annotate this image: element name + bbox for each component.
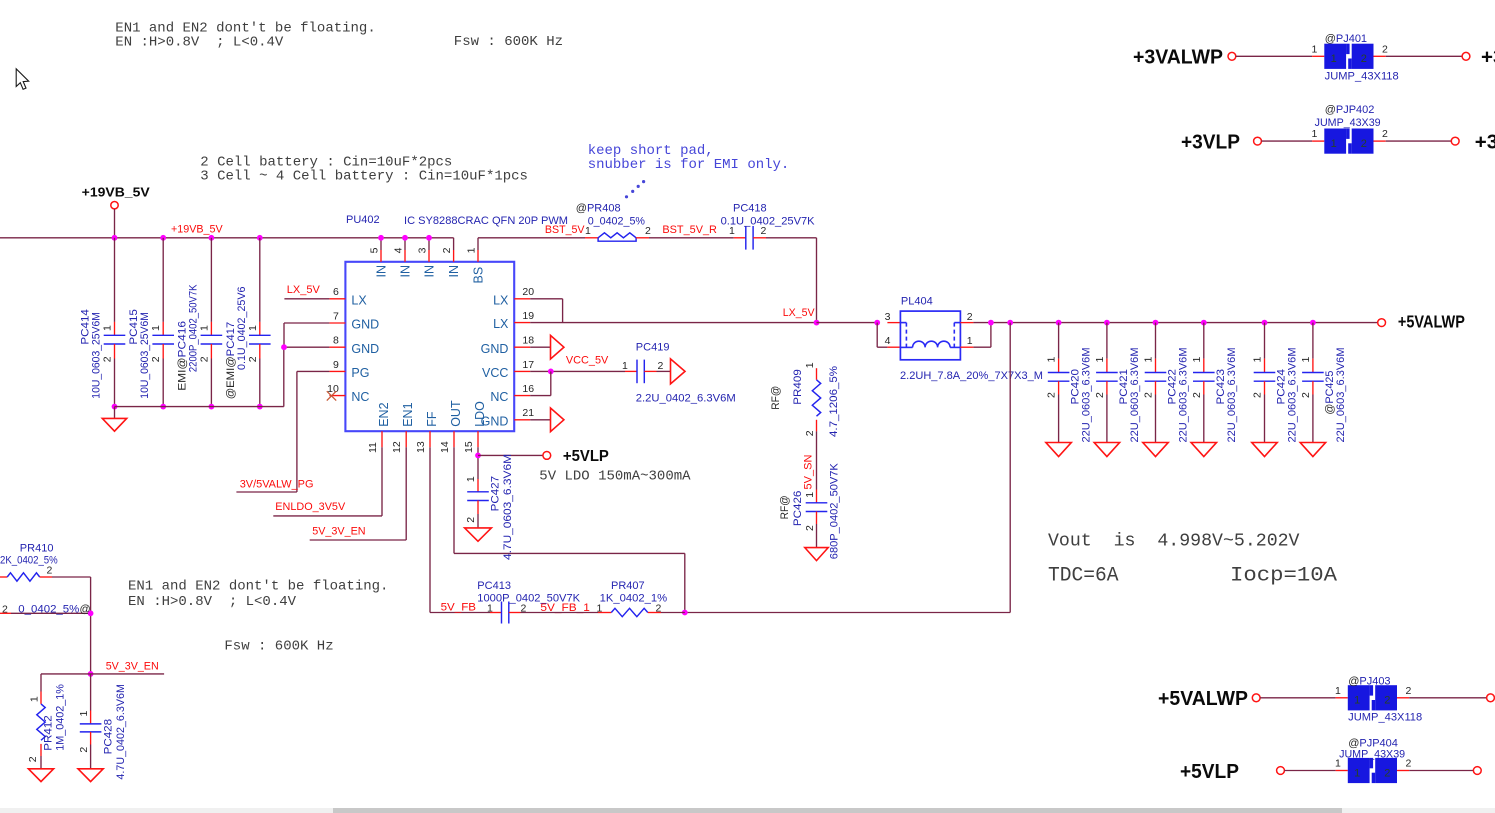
svg-text:JUMP_43X39: JUMP_43X39 — [1339, 749, 1405, 761]
svg-text:1: 1 — [804, 362, 816, 368]
svg-text:IN: IN — [447, 265, 461, 278]
svg-text:1: 1 — [102, 325, 114, 331]
svg-text:1: 1 — [1300, 357, 1312, 363]
svg-text:Vout is 4.998V~5.202V: Vout is 4.998V~5.202V — [1048, 531, 1300, 551]
svg-text:1: 1 — [466, 247, 478, 253]
svg-text:1: 1 — [1335, 685, 1341, 697]
svg-text:6: 6 — [333, 286, 339, 298]
svg-text:2.2UH_7.8A_20%_7X7X3_M: 2.2UH_7.8A_20%_7X7X3_M — [900, 370, 1043, 382]
svg-text:1M_0402_1%: 1M_0402_1% — [55, 684, 67, 751]
svg-text:Iocp=10A: Iocp=10A — [1230, 565, 1338, 588]
svg-text:22U_0603_6.3V6M: 22U_0603_6.3V6M — [1287, 348, 1299, 443]
svg-text:1: 1 — [247, 325, 259, 331]
svg-text:1: 1 — [1311, 128, 1317, 140]
svg-text:PR412: PR412 — [43, 715, 55, 751]
svg-text:EN1: EN1 — [401, 402, 415, 426]
svg-text:PC419: PC419 — [636, 342, 670, 354]
svg-text:20: 20 — [522, 286, 534, 298]
svg-text:2: 2 — [1143, 392, 1155, 398]
svg-text:1: 1 — [1191, 357, 1203, 363]
svg-text:1: 1 — [1331, 138, 1337, 150]
svg-text:+3VALWP: +3VALWP — [1133, 46, 1223, 69]
svg-text:1: 1 — [622, 360, 628, 372]
svg-text:10U_0603_25V6M: 10U_0603_25V6M — [139, 312, 151, 399]
svg-text:2: 2 — [78, 747, 90, 753]
svg-text:GND: GND — [351, 318, 379, 332]
svg-text:4: 4 — [885, 335, 891, 347]
svg-text:0_0402_5%: 0_0402_5% — [588, 215, 646, 227]
svg-text:2: 2 — [150, 356, 162, 362]
svg-text:2: 2 — [1300, 392, 1312, 398]
svg-text:2: 2 — [1384, 767, 1390, 779]
svg-text:0_0402_5%: 0_0402_5% — [18, 604, 79, 616]
svg-text:1: 1 — [198, 325, 210, 331]
svg-text:3: 3 — [885, 311, 891, 323]
svg-text:Fsw : 600K Hz: Fsw : 600K Hz — [224, 638, 333, 654]
svg-text:7: 7 — [333, 310, 339, 322]
svg-text:11: 11 — [367, 442, 379, 453]
svg-text:TDC=6A: TDC=6A — [1048, 565, 1119, 588]
svg-text:LX: LX — [493, 293, 509, 307]
svg-text:IC SY8288CRAC QFN 20P PWM: IC SY8288CRAC QFN 20P PWM — [404, 215, 568, 227]
svg-text:2: 2 — [1406, 758, 1412, 770]
svg-text:PC428: PC428 — [103, 719, 115, 755]
svg-text:1: 1 — [78, 711, 90, 717]
svg-text:2: 2 — [1046, 392, 1058, 398]
svg-text:17: 17 — [522, 359, 534, 371]
svg-text:RF@: RF@ — [770, 386, 782, 410]
svg-text:+3: +3 — [1475, 130, 1495, 153]
svg-text:LX_5V: LX_5V — [287, 284, 321, 296]
svg-text:2.2U_0402_6.3V6M: 2.2U_0402_6.3V6M — [636, 393, 736, 405]
svg-text:Fsw : 600K Hz: Fsw : 600K Hz — [454, 34, 563, 50]
svg-text:1: 1 — [1252, 357, 1264, 363]
svg-text:PC413: PC413 — [477, 580, 511, 592]
svg-text:2: 2 — [102, 356, 114, 362]
svg-text:1: 1 — [1046, 357, 1058, 363]
svg-text:1: 1 — [29, 696, 41, 702]
svg-text:2: 2 — [1191, 392, 1203, 398]
svg-text:PC418: PC418 — [733, 203, 767, 215]
svg-text:JUMP_43X118: JUMP_43X118 — [1348, 711, 1422, 723]
svg-text:1: 1 — [967, 335, 973, 347]
svg-text:PC427: PC427 — [490, 476, 502, 512]
svg-text:2: 2 — [247, 356, 259, 362]
svg-text:2: 2 — [1361, 138, 1367, 150]
svg-text:BST_5V_R: BST_5V_R — [662, 224, 717, 236]
svg-text:1: 1 — [1354, 767, 1360, 779]
svg-text:PR407: PR407 — [611, 580, 645, 592]
svg-text:VCC: VCC — [482, 366, 508, 380]
svg-text:PC426: PC426 — [792, 491, 804, 527]
svg-text:4.7U_0603_6.3V6M: 4.7U_0603_6.3V6M — [502, 454, 514, 560]
svg-text:GND: GND — [481, 342, 509, 356]
svg-text:PG: PG — [351, 366, 369, 380]
svg-text:9: 9 — [333, 359, 339, 371]
svg-text:+3VLP: +3VLP — [1181, 130, 1240, 153]
svg-text:680P_0402_50V7K: 680P_0402_50V7K — [829, 463, 841, 560]
svg-text:3V/5VALW_PG: 3V/5VALW_PG — [240, 479, 314, 491]
svg-text:2: 2 — [804, 430, 816, 436]
svg-text:RF@: RF@ — [779, 495, 791, 519]
svg-text:2: 2 — [804, 525, 816, 531]
svg-text:1: 1 — [1143, 357, 1155, 363]
svg-text:+5VALWP: +5VALWP — [1398, 311, 1465, 331]
svg-text:2: 2 — [1252, 392, 1264, 398]
svg-text:22U_0603_6.3V6M: 22U_0603_6.3V6M — [1226, 348, 1238, 443]
svg-text:5V_3V_EN: 5V_3V_EN — [106, 660, 159, 672]
svg-text:LDO: LDO — [473, 401, 487, 427]
svg-text:5V_3V_EN: 5V_3V_EN — [312, 525, 365, 537]
svg-text:BST_5V: BST_5V — [545, 224, 585, 236]
svg-text:ENLDO_3V5V: ENLDO_3V5V — [275, 501, 346, 513]
svg-text:3 Cell ~ 4 Cell battery : Cin=: 3 Cell ~ 4 Cell battery : Cin=10uF*1pcs — [200, 169, 528, 185]
svg-text:OUT: OUT — [449, 400, 463, 427]
svg-text:2: 2 — [465, 517, 477, 523]
svg-text:LX_5V: LX_5V — [783, 307, 815, 319]
svg-text:PR410: PR410 — [20, 543, 54, 555]
svg-text:2: 2 — [2, 604, 8, 616]
svg-text:PL404: PL404 — [901, 296, 933, 308]
svg-text:1: 1 — [1331, 53, 1337, 65]
svg-text:1: 1 — [804, 492, 816, 498]
svg-text:12: 12 — [391, 441, 403, 453]
svg-text:+3: +3 — [1481, 46, 1495, 69]
svg-text:15: 15 — [463, 441, 475, 453]
svg-text:1K_0402_1%: 1K_0402_1% — [600, 593, 668, 605]
svg-text:18: 18 — [522, 335, 534, 347]
svg-text:GND: GND — [351, 342, 379, 356]
svg-text:1: 1 — [150, 325, 162, 331]
svg-text:4: 4 — [393, 247, 405, 253]
svg-text:5: 5 — [369, 247, 381, 253]
svg-text:5V_FB: 5V_FB — [441, 602, 476, 614]
svg-text:+19VB_5V: +19VB_5V — [171, 224, 223, 236]
svg-text:FF: FF — [425, 411, 439, 427]
svg-text:19: 19 — [522, 310, 534, 322]
svg-text:2: 2 — [1382, 43, 1388, 55]
svg-text:@: @ — [80, 604, 91, 616]
svg-text:2: 2 — [1382, 128, 1388, 140]
svg-text:@PR408: @PR408 — [576, 203, 621, 215]
svg-text:IN: IN — [399, 265, 413, 278]
svg-text:LX: LX — [351, 293, 367, 307]
svg-text:5V LDO 150mA~300mA: 5V LDO 150mA~300mA — [539, 469, 691, 485]
svg-text:+5VLP: +5VLP — [1180, 760, 1239, 783]
svg-text:IN: IN — [423, 265, 437, 278]
svg-text:5V_SN: 5V_SN — [803, 455, 815, 490]
svg-text:@PJ401: @PJ401 — [1325, 33, 1367, 45]
svg-text:BS: BS — [472, 267, 486, 284]
svg-text:JUMP_43X118: JUMP_43X118 — [1325, 71, 1399, 83]
svg-text:PU402: PU402 — [346, 214, 380, 226]
svg-text:1: 1 — [1354, 695, 1360, 707]
svg-text:VCC_5V: VCC_5V — [566, 355, 609, 367]
svg-text:14: 14 — [439, 441, 451, 453]
svg-text:2: 2 — [27, 756, 39, 762]
svg-text:0.1U_0402_25V7K: 0.1U_0402_25V7K — [721, 215, 816, 227]
svg-text:NC: NC — [351, 390, 369, 404]
svg-text:1: 1 — [1094, 357, 1106, 363]
svg-text:2: 2 — [1384, 695, 1390, 707]
svg-text:13: 13 — [415, 441, 427, 453]
svg-text:10U_0603_25V6M: 10U_0603_25V6M — [91, 312, 103, 399]
svg-text:2: 2 — [47, 565, 53, 577]
svg-text:2200P_0402_50V7K: 2200P_0402_50V7K — [187, 284, 199, 372]
svg-text:+19VB_5V: +19VB_5V — [82, 184, 150, 199]
svg-text:NC: NC — [490, 390, 508, 404]
svg-text:JUMP_43X39: JUMP_43X39 — [1315, 117, 1381, 129]
svg-text:PR409: PR409 — [792, 369, 804, 405]
svg-text:22U_0603_6.3V6M: 22U_0603_6.3V6M — [1081, 348, 1093, 443]
svg-text:4.7U_0402_6.3V6M: 4.7U_0402_6.3V6M — [115, 684, 127, 780]
svg-text:EN :H>0.8V ; L<0.4V: EN :H>0.8V ; L<0.4V — [128, 594, 297, 610]
svg-text:3: 3 — [417, 247, 429, 253]
svg-text:EN :H>0.8V ; L<0.4V: EN :H>0.8V ; L<0.4V — [115, 35, 284, 51]
svg-text:2: 2 — [1406, 685, 1412, 697]
svg-text:1: 1 — [1311, 43, 1317, 55]
svg-text:2: 2 — [1094, 392, 1106, 398]
svg-text:22U_0603_6.3V6M: 22U_0603_6.3V6M — [1129, 348, 1141, 443]
svg-text:16: 16 — [522, 383, 534, 395]
svg-text:21: 21 — [522, 407, 534, 419]
svg-text:IN: IN — [375, 265, 389, 278]
svg-text:2: 2 — [1361, 53, 1367, 65]
svg-text:EN2: EN2 — [377, 402, 391, 426]
svg-text:4.7_1206_5%: 4.7_1206_5% — [828, 366, 840, 437]
svg-text:0.1U_0402_25V6: 0.1U_0402_25V6 — [236, 287, 248, 371]
svg-text:@PJ403: @PJ403 — [1348, 675, 1390, 687]
svg-text:+5VALWP: +5VALWP — [1158, 687, 1248, 710]
svg-text:@PJP402: @PJP402 — [1325, 104, 1375, 116]
svg-text:2: 2 — [967, 311, 973, 323]
svg-text:+5VLP: +5VLP — [563, 448, 609, 465]
svg-text:2: 2 — [658, 360, 664, 372]
svg-text:EN1 and EN2 dont't be floating: EN1 and EN2 dont't be floating. — [128, 578, 388, 594]
svg-text:22U_0603_6.3V6M: 22U_0603_6.3V6M — [1178, 348, 1190, 443]
svg-text:1: 1 — [465, 476, 477, 482]
svg-text:2: 2 — [441, 247, 453, 253]
svg-text:2: 2 — [198, 356, 210, 362]
svg-text:8: 8 — [333, 335, 339, 347]
svg-text:2: 2 — [645, 225, 651, 237]
svg-text:LX: LX — [493, 317, 509, 331]
svg-text:22U_0603_6.3V6M: 22U_0603_6.3V6M — [1335, 348, 1347, 443]
svg-text:snubber is for EMI only.: snubber is for EMI only. — [588, 157, 790, 173]
